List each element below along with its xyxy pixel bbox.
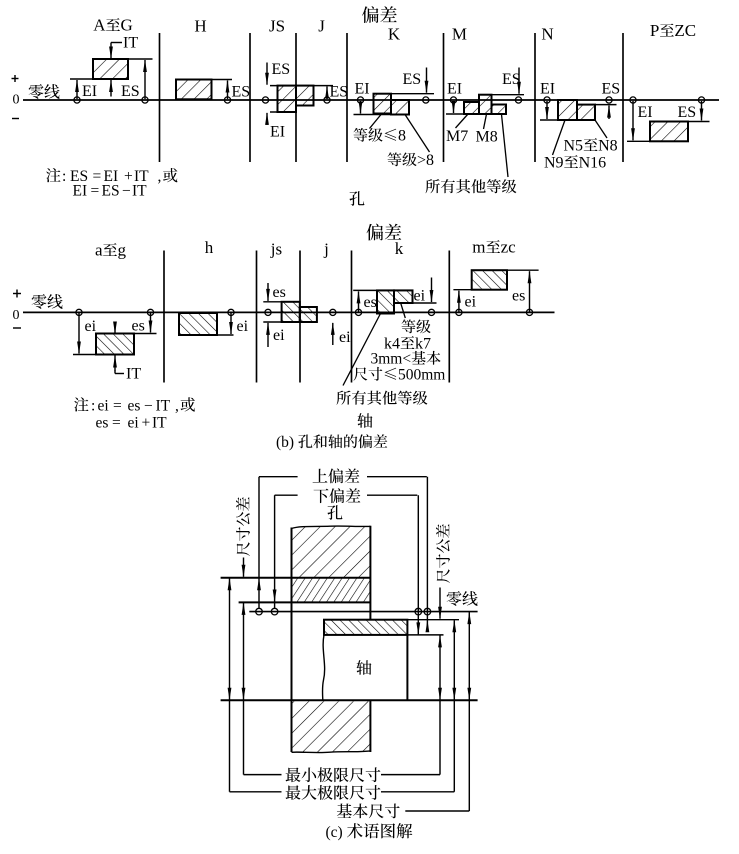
title 偏差 (shafts) bbox=[367, 224, 384, 241]
arrow ei h bbox=[230, 313, 232, 334]
tolerance zone k k4-k7... left box (other grades) bbox=[377, 290, 394, 313]
node circle ei k bbox=[428, 309, 434, 315]
leader lines 下偏差 bbox=[275, 494, 298, 496]
svg-text:0: 0 bbox=[13, 93, 20, 108]
arrow ES A至G bbox=[144, 60, 146, 99]
svg-text::: : bbox=[91, 397, 95, 414]
label 轴 (figure c) bbox=[356, 660, 371, 675]
label 最大极限尺寸 bbox=[286, 785, 301, 800]
leader K grade<=8 bbox=[370, 115, 382, 129]
svg-text:ES: ES bbox=[678, 104, 697, 121]
node circle ES H bbox=[224, 97, 230, 103]
node circle EI P至ZC bbox=[630, 97, 636, 103]
hole max limit line bbox=[221, 577, 371, 579]
bottom limit line js j bbox=[263, 321, 317, 323]
svg-text:EI: EI bbox=[638, 104, 653, 121]
svg-text:,: , bbox=[158, 168, 162, 185]
dimension arrow 尺寸公差 right upper bbox=[439, 588, 441, 619]
dimension line 最大极限尺寸 (left) bbox=[229, 578, 231, 792]
leader lines 最小极限尺寸 bbox=[244, 774, 282, 776]
leader lines 最大极限尺寸 bbox=[230, 791, 282, 793]
hole block right edge lower bbox=[369, 700, 371, 752]
hole block lower (hatched) bbox=[292, 701, 371, 752]
leader M8 bbox=[484, 114, 487, 129]
svg-text:IT: IT bbox=[123, 35, 138, 52]
label 尺寸<=500mm bbox=[353, 367, 367, 380]
node circle EI K bbox=[357, 97, 363, 103]
arrow ei js bbox=[267, 323, 269, 347]
top limit line K bbox=[374, 93, 435, 95]
svg-text:ei: ei bbox=[98, 397, 110, 414]
svg-text:ei: ei bbox=[414, 288, 426, 305]
leader M other grades bbox=[502, 114, 509, 177]
top limit line N5-N8 bbox=[595, 104, 617, 106]
hole block left edge bbox=[291, 528, 293, 753]
label 尺寸公差 (left, vertical) bbox=[236, 497, 250, 556]
arrow es a至g bbox=[150, 313, 152, 333]
dimension line 最大极限尺寸 (right, shaft) bbox=[453, 620, 455, 792]
tolerance zone P至ZC bbox=[650, 122, 688, 142]
bottom limit line N bbox=[540, 119, 595, 121]
svg-text:ei: ei bbox=[128, 415, 140, 432]
tolerance zone M7 bbox=[464, 102, 479, 114]
node circle EI M bbox=[450, 97, 456, 103]
svg-text:k7: k7 bbox=[415, 336, 431, 353]
dimension arrow 尺寸公差 left upper bbox=[243, 558, 245, 577]
svg-text:es: es bbox=[128, 397, 141, 414]
bottom limit line m至zc bbox=[453, 289, 507, 291]
hole min limit line bbox=[239, 601, 371, 603]
svg-text:ES: ES bbox=[232, 84, 251, 101]
svg-text:N5: N5 bbox=[564, 138, 584, 155]
svg-text:EI: EI bbox=[540, 81, 555, 98]
tolerance zone h bbox=[179, 313, 217, 335]
dimension line 下偏差 left (EI) bbox=[274, 495, 276, 608]
svg-text:ei: ei bbox=[237, 318, 249, 335]
svg-text:EI: EI bbox=[73, 183, 88, 200]
svg-text:A: A bbox=[93, 16, 106, 35]
tolerance zone j bbox=[300, 307, 317, 322]
tolerance zone N5-N8 bbox=[577, 105, 595, 120]
svg-text:ES: ES bbox=[102, 183, 120, 200]
svg-text:H: H bbox=[194, 17, 206, 36]
label 零线 (middle) bbox=[32, 294, 47, 309]
label 孔 (top diagram) bbox=[350, 191, 365, 206]
arrow EI JS bbox=[266, 113, 268, 125]
label 等级 (k) bbox=[402, 319, 416, 333]
arrow EI N bbox=[546, 101, 548, 119]
svg-text:3mm<: 3mm< bbox=[371, 351, 412, 368]
arrow es m至zc bbox=[529, 271, 531, 311]
node circle ei m至zc bbox=[456, 309, 462, 315]
node circle js bbox=[265, 309, 271, 315]
axis + label (middle) bbox=[13, 293, 21, 295]
node circle J bbox=[324, 97, 330, 103]
tolerance zone k right box (k4 to k7) bbox=[394, 290, 413, 303]
svg-text:es: es bbox=[364, 294, 377, 311]
svg-text:ES: ES bbox=[330, 84, 349, 101]
node circle EI A至G bbox=[74, 97, 80, 103]
svg-text:−: − bbox=[144, 397, 153, 414]
svg-text:N9: N9 bbox=[544, 155, 564, 172]
top limit line a至g bbox=[96, 333, 157, 335]
svg-text::: : bbox=[62, 168, 66, 185]
svg-text:(c): (c) bbox=[326, 824, 343, 841]
node circle ES N bbox=[606, 97, 612, 103]
zero line (shafts) bbox=[23, 311, 555, 313]
svg-text:es: es bbox=[132, 318, 145, 335]
svg-text:M7: M7 bbox=[446, 128, 468, 145]
svg-text:EI: EI bbox=[447, 81, 462, 98]
axis - label (middle) bbox=[13, 327, 21, 329]
tolerance zone a至g bbox=[96, 334, 134, 355]
node circle es m至zc bbox=[526, 309, 532, 315]
label 最小极限尺寸 bbox=[286, 768, 301, 783]
hole block right edge upper bbox=[369, 526, 371, 620]
svg-text:g: g bbox=[118, 241, 127, 260]
basic size line (bottom of shaft) bbox=[221, 699, 478, 701]
tolerance zone K grade<=8 bbox=[374, 94, 392, 114]
axis + label (top) bbox=[12, 78, 19, 80]
svg-text:>8: >8 bbox=[417, 152, 434, 169]
svg-text:ei: ei bbox=[465, 294, 477, 311]
arrow es js bbox=[267, 283, 269, 301]
shaft body right edge bbox=[406, 635, 408, 700]
IT arrows A至G bbox=[110, 43, 112, 59]
arrow ES JS bbox=[266, 63, 268, 85]
arrow EI A至G bbox=[76, 80, 78, 99]
svg-text:ei: ei bbox=[273, 327, 285, 344]
top limit line js bbox=[263, 301, 282, 303]
svg-text:ei: ei bbox=[85, 318, 97, 335]
arrow ES M bbox=[518, 68, 520, 94]
leader N9-N16 bbox=[553, 120, 566, 155]
svg-text:zc: zc bbox=[501, 238, 517, 257]
shaft min limit line extension bbox=[407, 634, 443, 636]
svg-text:EI: EI bbox=[82, 83, 97, 100]
title 偏差 (top) bbox=[362, 6, 379, 23]
svg-text:es: es bbox=[96, 415, 109, 432]
arrow es k bbox=[358, 291, 360, 311]
svg-text:ES: ES bbox=[602, 81, 621, 98]
bottom limit line h bbox=[179, 334, 234, 336]
zero line (figure c) bbox=[249, 611, 477, 613]
node circle JS bbox=[262, 97, 268, 103]
shaft tolerance strip bbox=[324, 620, 407, 635]
svg-text:m: m bbox=[472, 238, 485, 257]
svg-text:=: = bbox=[112, 415, 121, 432]
svg-text:N16: N16 bbox=[579, 155, 607, 172]
svg-text:,: , bbox=[175, 397, 179, 414]
top limit line JS J bbox=[270, 85, 333, 87]
label 所有其他等级 bbox=[426, 179, 440, 193]
tolerance zone js bbox=[282, 302, 300, 322]
svg-text:ei: ei bbox=[339, 329, 351, 346]
dimension line 基本尺寸 (right) bbox=[468, 612, 470, 811]
bottom limit line A至G bbox=[70, 78, 128, 80]
arrow EI P至ZC bbox=[632, 101, 634, 140]
svg-text:P: P bbox=[650, 21, 659, 40]
dimension line 最小极限尺寸 (left) bbox=[243, 603, 245, 775]
tolerance zone N9-N16 bbox=[558, 100, 577, 120]
leader k k4-k7 bbox=[401, 303, 406, 318]
arrow ei a至g bbox=[78, 313, 80, 354]
label 尺寸公差 (right, vertical) bbox=[436, 524, 450, 583]
label 等级>8 bbox=[388, 152, 402, 166]
IT arrows a至g bbox=[114, 322, 116, 334]
arrow ES N bbox=[608, 106, 610, 119]
label 等级<=8 bbox=[354, 128, 368, 142]
svg-text:js: js bbox=[270, 240, 282, 259]
bottom limit line a至g bbox=[73, 354, 134, 356]
svg-text:N: N bbox=[541, 25, 553, 44]
svg-text:EI: EI bbox=[355, 81, 370, 98]
note shaft formulas line1 bbox=[74, 397, 88, 411]
tolerance zone JS bbox=[278, 86, 297, 112]
top limit line A至G bbox=[93, 58, 153, 60]
svg-text:−: − bbox=[122, 183, 131, 200]
leader k other grades bbox=[343, 314, 381, 386]
svg-text:J: J bbox=[318, 17, 325, 36]
zero line (holes) bbox=[23, 99, 719, 101]
hole tolerance zone strip bbox=[292, 578, 371, 603]
tolerance zone m至zc bbox=[472, 270, 507, 290]
node circle ES M bbox=[515, 97, 521, 103]
label 零线 (top) bbox=[29, 84, 44, 99]
svg-text:M8: M8 bbox=[476, 129, 498, 146]
top limit line M bbox=[478, 94, 524, 96]
svg-text:es: es bbox=[273, 284, 286, 301]
label 轴 (middle diagram) bbox=[357, 413, 372, 428]
svg-text:IT: IT bbox=[156, 397, 171, 414]
svg-text:=: = bbox=[91, 183, 100, 200]
svg-text:EI: EI bbox=[270, 124, 285, 141]
node circle ES P至ZC bbox=[698, 97, 704, 103]
tolerance zone M8 bbox=[479, 95, 492, 114]
node circle es a至g bbox=[147, 309, 153, 315]
label 孔 (figure c) bbox=[328, 505, 343, 520]
dimension line 最小极限尺寸 (right, shaft) bbox=[439, 635, 441, 774]
svg-text:0: 0 bbox=[13, 308, 20, 323]
bottom limit line JS bbox=[270, 111, 296, 113]
arrow ei k bbox=[431, 278, 433, 303]
svg-text:+: + bbox=[142, 415, 151, 432]
dimension line 上偏差 left (ES) bbox=[258, 477, 260, 609]
tolerance zone J bbox=[296, 86, 314, 106]
top limit line m至zc bbox=[472, 269, 539, 271]
svg-text:es: es bbox=[512, 288, 525, 305]
leader line 基本尺寸 bbox=[405, 810, 469, 812]
arrow EI K bbox=[360, 101, 362, 114]
bottom limit line M bbox=[446, 113, 506, 115]
column separators (holes) bbox=[159, 33, 161, 162]
svg-text:=: = bbox=[113, 397, 122, 414]
tolerance zone K grade>8 bbox=[391, 100, 409, 115]
svg-text:JS: JS bbox=[269, 17, 285, 36]
note hole formulas line1 bbox=[46, 168, 60, 182]
tolerance zone M other bbox=[492, 105, 507, 115]
label 基本尺寸 bbox=[337, 804, 352, 818]
label 零线 (figure c) bbox=[447, 591, 462, 606]
axis - label (top) bbox=[12, 118, 19, 120]
svg-text:k: k bbox=[395, 239, 404, 258]
node circle j bbox=[330, 309, 336, 315]
svg-text:500mm: 500mm bbox=[398, 367, 445, 384]
svg-text:IT: IT bbox=[152, 415, 167, 432]
svg-text:ZC: ZC bbox=[674, 21, 696, 40]
svg-text:ES: ES bbox=[121, 83, 140, 100]
svg-text:a: a bbox=[95, 241, 103, 260]
label 所有其他等级 (k) bbox=[337, 391, 351, 405]
leader N5-N8 bbox=[595, 120, 607, 138]
bottom limit line P至ZC bbox=[627, 140, 688, 142]
top limit line P至ZC bbox=[650, 121, 710, 123]
node circle ei a至g bbox=[76, 309, 82, 315]
leader K grade>8 bbox=[405, 115, 430, 153]
shaft max limit line extension bbox=[407, 619, 459, 621]
svg-text:ES: ES bbox=[403, 71, 422, 88]
svg-text:M: M bbox=[452, 25, 467, 44]
arrow ei j bbox=[332, 323, 334, 345]
dimension line 上偏差 right (shaft es) bbox=[426, 477, 428, 631]
svg-text:IT: IT bbox=[126, 366, 141, 383]
bottom limit line k right bbox=[413, 302, 437, 304]
svg-text:G: G bbox=[121, 16, 133, 35]
node circle ES K bbox=[423, 97, 429, 103]
svg-text:IT: IT bbox=[132, 183, 147, 200]
hole block upper (hatched) bbox=[292, 526, 371, 578]
leader lines 上偏差 bbox=[259, 476, 298, 478]
tolerance zone A至G bbox=[93, 59, 128, 79]
node circles on zero line (figure c) bbox=[256, 608, 263, 615]
arrow ES P至ZC bbox=[701, 101, 703, 121]
svg-text:K: K bbox=[388, 25, 401, 44]
label 下偏差 bbox=[314, 489, 329, 503]
node circle ei h bbox=[228, 309, 234, 315]
leader M7 bbox=[456, 114, 469, 128]
node circle EI N bbox=[544, 97, 550, 103]
top limit line k bbox=[353, 289, 412, 291]
arrow EI M bbox=[453, 101, 455, 113]
arrow ES H bbox=[227, 81, 229, 100]
node circle ES A至G bbox=[142, 97, 148, 103]
svg-text:8: 8 bbox=[398, 128, 406, 145]
bottom limit line K bbox=[354, 114, 410, 116]
svg-text:N8: N8 bbox=[598, 138, 618, 155]
shaft body left break edge bbox=[322, 635, 324, 700]
svg-text:ES: ES bbox=[502, 71, 521, 88]
svg-text:h: h bbox=[205, 238, 214, 257]
column separators (shafts) bbox=[163, 251, 165, 383]
top limit line H bbox=[176, 79, 232, 81]
arrow ES K bbox=[426, 68, 428, 93]
arrow ei m至zc bbox=[458, 291, 460, 312]
svg-text:j: j bbox=[323, 240, 329, 259]
svg-text:ES: ES bbox=[272, 61, 291, 78]
dimension line 下偏差 right (shaft ei) bbox=[417, 495, 419, 634]
svg-text:(b): (b) bbox=[276, 434, 294, 451]
label 上偏差 bbox=[313, 469, 328, 483]
tolerance zone H bbox=[176, 80, 212, 100]
arrow ES J bbox=[326, 87, 328, 100]
node circle es k bbox=[355, 309, 361, 315]
